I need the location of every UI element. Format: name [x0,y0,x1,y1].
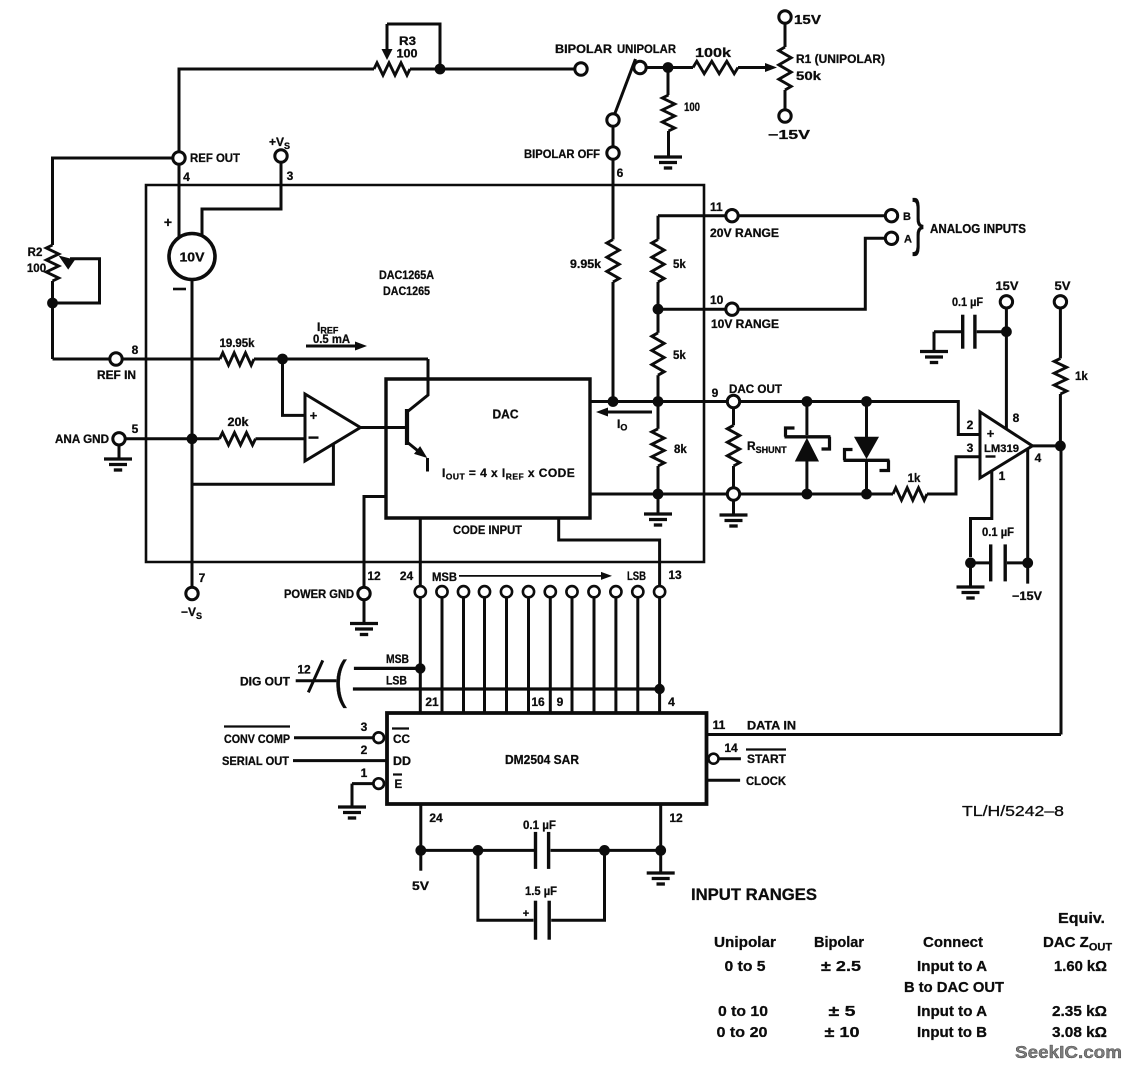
svg-text:50k: 50k [796,69,821,83]
svg-text:± 5: ± 5 [829,1003,856,1020]
svg-text:1.60 kΩ: 1.60 kΩ [1054,958,1107,975]
svg-text:E: E [395,779,403,791]
svg-text:1k: 1k [908,473,921,485]
svg-text:8: 8 [132,343,139,357]
svg-text:REF IN: REF IN [97,370,136,382]
svg-text:−15V: −15V [1012,589,1042,603]
svg-text:(: ( [334,651,348,709]
svg-text:0 to 10: 0 to 10 [718,1003,768,1020]
svg-text:Unipolar: Unipolar [714,934,776,951]
svg-text:14: 14 [724,741,738,755]
svg-text:BIPOLAR: BIPOLAR [555,42,612,56]
svg-text:11: 11 [713,718,726,732]
svg-text:24: 24 [400,569,414,583]
svg-text:100: 100 [684,100,700,114]
svg-text:ANA GND: ANA GND [55,434,109,446]
svg-text:1k: 1k [1075,371,1088,383]
svg-text:2: 2 [967,418,974,432]
svg-text:DAC: DAC [493,408,519,422]
svg-text:3.08 kΩ: 3.08 kΩ [1052,1024,1107,1041]
svg-text:11: 11 [710,200,723,214]
svg-text:B: B [903,211,911,223]
svg-text:5V: 5V [1055,279,1071,293]
svg-text:16: 16 [531,695,545,709]
svg-text:12: 12 [669,811,683,825]
svg-text:Equiv.: Equiv. [1058,910,1105,927]
svg-text:CLOCK: CLOCK [746,774,786,788]
svg-text:MSB: MSB [432,572,457,584]
svg-text:20V RANGE: 20V RANGE [710,228,779,240]
svg-text:21: 21 [425,695,439,709]
svg-text:8: 8 [1013,411,1020,425]
svg-text:10V RANGE: 10V RANGE [711,319,779,331]
svg-text:INPUT RANGES: INPUT RANGES [691,886,817,904]
svg-text:20k: 20k [228,417,250,429]
svg-text:1: 1 [999,469,1006,483]
svg-text:3: 3 [361,720,368,734]
svg-text:B to DAC OUT: B to DAC OUT [904,979,1004,996]
svg-text:5V: 5V [412,879,429,893]
svg-text:R1 (UNIPOLAR): R1 (UNIPOLAR) [796,52,885,66]
svg-text:LSB: LSB [627,571,646,583]
svg-text:DAC1265A: DAC1265A [379,268,434,282]
svg-text:POWER GND: POWER GND [284,589,354,601]
svg-text:± 2.5: ± 2.5 [821,958,861,975]
svg-text:DATA IN: DATA IN [747,719,796,733]
svg-text:LM319: LM319 [984,443,1019,455]
svg-text:REF OUT: REF OUT [190,151,241,165]
svg-text:−15V: −15V [768,128,811,142]
svg-text:4: 4 [183,170,190,184]
svg-text:SERIAL OUT: SERIAL OUT [222,756,289,768]
svg-text:100: 100 [27,263,46,275]
svg-text:+: + [310,408,318,423]
svg-text:Input to A: Input to A [917,1003,987,1020]
svg-text:TL/H/5242–8: TL/H/5242–8 [962,804,1064,820]
svg-text:0.1 µF: 0.1 µF [982,527,1014,539]
svg-text:4: 4 [1035,451,1042,465]
svg-text:Connect: Connect [923,934,983,951]
svg-text:5k: 5k [673,259,686,271]
svg-text:+: + [523,908,529,920]
svg-text:3: 3 [967,441,974,455]
svg-text:6: 6 [617,166,624,180]
svg-text:1.5 µF: 1.5 µF [525,884,557,898]
svg-text:Input to B: Input to B [917,1024,987,1041]
svg-text:DAC1265: DAC1265 [383,284,430,298]
svg-text:1: 1 [361,766,368,780]
svg-text:CC: CC [393,734,410,746]
svg-text:DAC OUT: DAC OUT [729,382,783,396]
svg-text:± 10: ± 10 [825,1024,860,1041]
svg-text:START: START [747,752,787,766]
svg-text:12: 12 [297,663,311,677]
svg-text:0.1 µF: 0.1 µF [523,818,556,832]
svg-text:10V: 10V [180,251,206,265]
svg-text:Bipolar: Bipolar [814,934,864,951]
svg-text:9: 9 [557,695,564,709]
svg-text:DIG OUT: DIG OUT [240,677,290,689]
svg-text:15V: 15V [794,13,822,27]
svg-text:5: 5 [132,422,139,436]
svg-text:4: 4 [668,695,675,709]
svg-text:DD: DD [393,756,411,768]
svg-text:BIPOLAR OFF: BIPOLAR OFF [524,147,600,161]
svg-text:0.5 mA: 0.5 mA [313,334,350,346]
svg-text:DM2504 SAR: DM2504 SAR [505,753,579,767]
svg-text:UNIPOLAR: UNIPOLAR [617,42,676,56]
svg-text:2.35 kΩ: 2.35 kΩ [1052,1003,1107,1020]
svg-text:3: 3 [287,169,294,183]
svg-text:Input to A: Input to A [917,958,987,975]
svg-text:SeekIC.com: SeekIC.com [1015,1042,1122,1062]
svg-text:100: 100 [397,47,418,61]
svg-text:A: A [904,234,912,246]
svg-text:15V: 15V [996,279,1019,293]
svg-text:100k: 100k [695,46,731,60]
svg-text:0 to 5: 0 to 5 [725,958,766,975]
svg-text:9.95k: 9.95k [570,259,602,271]
svg-text:5k: 5k [673,350,686,362]
svg-text:0 to 20: 0 to 20 [717,1024,768,1041]
svg-text:+: + [164,214,172,230]
svg-text:24: 24 [429,811,443,825]
svg-text:R2: R2 [28,247,43,259]
svg-text:+: + [987,426,995,441]
svg-text:}: } [912,188,924,257]
svg-text:0.1 µF: 0.1 µF [952,297,983,309]
svg-text:ANALOG INPUTS: ANALOG INPUTS [930,222,1026,236]
svg-text:LSB: LSB [386,676,407,688]
svg-text:10: 10 [710,293,724,307]
svg-text:MSB: MSB [386,654,409,666]
svg-text:CODE INPUT: CODE INPUT [453,523,523,537]
svg-text:13: 13 [668,568,682,582]
svg-text:8k: 8k [674,444,687,456]
svg-text:2: 2 [361,743,368,757]
svg-text:12: 12 [367,569,381,583]
svg-text:CONV COMP: CONV COMP [224,734,290,746]
svg-text:9: 9 [712,386,719,400]
svg-text:19.95k: 19.95k [220,338,256,350]
svg-text:7: 7 [199,571,206,585]
